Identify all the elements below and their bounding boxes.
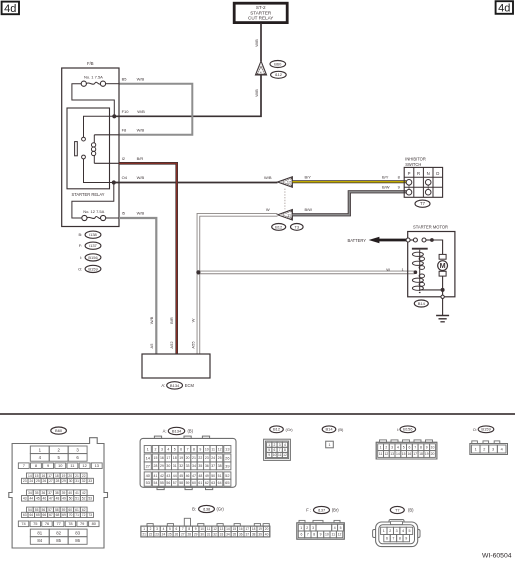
document number WI-60504 [482,552,512,559]
svg-text:21: 21 [192,456,196,460]
svg-text:33: 33 [88,479,92,483]
svg-text:10: 10 [200,527,204,531]
svg-text:4: 4 [284,443,286,447]
svg-text:64: 64 [218,481,222,485]
svg-text:T7: T7 [395,507,400,512]
svg-text:17: 17 [166,456,170,460]
inhibitor switch contacts N column [425,180,431,196]
relay coil [91,135,95,164]
svg-text:5: 5 [169,527,171,531]
battery feed (thick) with arrow [347,237,406,244]
node F10 junction [112,114,116,118]
svg-text:52: 52 [82,496,86,500]
wire coil top to pin F8 [94,134,119,136]
svg-text:8: 8 [284,448,286,452]
svg-text:60: 60 [192,481,196,485]
svg-text:46: 46 [43,496,47,500]
node O4 junction [112,180,116,184]
svg-text:3: 3 [279,443,281,447]
svg-text:F10: F10 [122,109,130,114]
svg-text:13: 13 [220,527,224,531]
svg-text:7: 7 [414,445,416,449]
svg-text:11: 11 [379,452,383,456]
svg-text:11: 11 [331,533,335,537]
svg-text:31: 31 [75,479,79,483]
svg-text:i112: i112 [275,72,283,77]
svg-text:47: 47 [192,474,196,478]
connector triangle pin 11 (B12 to T3) [278,210,293,221]
svg-text:6: 6 [180,447,182,451]
svg-text:T7: T7 [420,201,426,206]
connector face B156 shell and pins [376,440,437,459]
svg-text:W: W [386,267,390,272]
svg-text:5: 5 [268,448,270,452]
wire fuse No.1 left side down to F10 node [72,84,114,117]
svg-text:16: 16 [160,456,164,460]
svg-text:M: M [440,261,446,270]
svg-text:24: 24 [162,532,166,536]
svg-text:23: 23 [205,456,209,460]
svg-text:3: 3 [391,445,393,449]
svg-text:R: R [417,171,420,176]
svg-text:38: 38 [252,532,256,536]
svg-text:13: 13 [225,447,229,452]
svg-text:29: 29 [194,532,198,536]
solenoid coil [412,250,424,293]
svg-text:44: 44 [173,474,177,478]
connector label i112 [271,71,287,78]
svg-text:(Gr): (Gr) [217,507,225,512]
pin O4 label [122,175,145,180]
svg-text:5: 5 [340,526,342,530]
svg-text:B/R: B/R [137,156,144,161]
connector face A: B134 label [163,427,194,434]
svg-text:1: 1 [380,445,382,449]
svg-text:1: 1 [147,447,149,452]
svg-text:12: 12 [283,453,287,457]
svg-text:26: 26 [43,479,47,483]
connector face O: B159 label [473,426,494,433]
connector triangle (pin 4) B60 to i112 [255,61,266,75]
svg-text:37: 37 [48,491,52,495]
pin I5 label [122,211,145,216]
relay contact (lower) [82,155,86,159]
svg-text:19: 19 [62,474,66,478]
svg-text:43: 43 [166,474,170,478]
wire B/Y from pin 12 to inhibitor switch pin 8 [292,174,406,182]
svg-text:B5: B5 [122,76,128,81]
wire W from connector T3/B12 pin 11 to ECM A55 and starter motor pin 1 [198,215,414,354]
svg-text:I:: I: [80,255,82,260]
svg-text:W/B: W/B [137,175,145,180]
connector face B60 label [51,427,67,434]
svg-text:4: 4 [501,447,503,451]
terminal at starter case [441,290,444,299]
svg-text:4d: 4d [498,3,510,15]
svg-text:22: 22 [149,532,153,536]
svg-text:9: 9 [47,463,49,468]
svg-text:33: 33 [220,532,224,536]
svg-text:B12: B12 [275,224,283,229]
svg-text:7: 7 [187,447,189,451]
svg-text:2: 2 [306,526,308,530]
connector face B14 label [322,426,344,433]
svg-text:11: 11 [278,453,282,457]
svg-text:4d: 4d [4,3,16,15]
svg-text:45: 45 [179,474,183,478]
svg-text:D: D [436,171,439,176]
svg-text:63: 63 [23,513,27,517]
svg-text:36: 36 [205,464,209,468]
svg-text:25: 25 [168,532,172,536]
svg-text:60: 60 [68,508,72,512]
svg-text:No. 12 7.5A: No. 12 7.5A [83,209,104,214]
svg-text:(Br): (Br) [332,508,339,513]
svg-text:35: 35 [198,464,202,468]
switch: INHIBITOR SWITCH [404,157,442,198]
svg-text:B134: B134 [170,383,180,388]
connector label T7 under inhibitor switch [415,200,430,207]
svg-text:65: 65 [225,480,229,485]
svg-text:B/Y: B/Y [305,174,312,179]
svg-text:76: 76 [45,521,49,526]
svg-text:12: 12 [213,527,217,531]
svg-text:W/B: W/B [137,128,145,133]
svg-text:27: 27 [146,463,150,468]
svg-text:18: 18 [55,474,59,478]
svg-text:3: 3 [156,527,158,531]
svg-text:31: 31 [207,532,211,536]
svg-text:15: 15 [402,452,406,456]
svg-text:39: 39 [225,463,229,468]
ground symbol [436,316,449,322]
svg-text:19: 19 [179,456,183,460]
svg-text:79: 79 [80,521,84,526]
svg-text:53: 53 [146,480,150,485]
svg-text:30: 30 [166,464,170,468]
svg-text:39: 39 [62,491,66,495]
svg-text:2: 2 [389,529,391,533]
svg-text:16: 16 [239,527,243,531]
F/B connector id F: i137 [79,242,101,249]
svg-text:(B): (B) [338,427,344,432]
svg-text:58: 58 [55,508,59,512]
svg-text:14: 14 [396,452,400,456]
svg-text:W/B: W/B [254,39,259,47]
wire W/B from i112 down then left to F/B pin F10 [114,75,261,116]
svg-text:82: 82 [56,530,61,535]
solenoid plunger bar [412,248,428,250]
svg-text:1: 1 [383,529,385,533]
svg-text:B/W: B/W [305,207,313,212]
svg-text:B:: B: [79,232,83,237]
svg-text:51: 51 [75,496,79,500]
node W wire junction [196,270,200,274]
connector label T3 [291,224,304,231]
connector face B60 shell [9,438,108,548]
svg-text:F8: F8 [122,128,127,133]
svg-text:15: 15 [154,456,158,460]
F/B connector id B: i138 [79,231,101,238]
svg-text:12: 12 [218,447,222,451]
svg-text:24: 24 [29,479,33,483]
connector face I: B156 label [397,426,416,433]
svg-text:(B): (B) [408,508,414,513]
svg-text:38: 38 [55,491,59,495]
svg-text:38: 38 [218,464,222,468]
svg-text:(B): (B) [188,429,194,434]
svg-text:18: 18 [252,527,256,531]
svg-text:25: 25 [36,479,40,483]
wire W/B from ST-2 cut relay to connector B60/i112 [254,23,261,61]
svg-text:1: 1 [475,447,477,451]
inhibitor switch contacts P column [406,180,412,196]
svg-text:i138: i138 [203,506,211,511]
svg-text:68: 68 [56,513,60,517]
svg-text:10: 10 [431,445,435,449]
svg-text:1: 1 [143,527,145,531]
svg-text:3: 3 [492,447,494,451]
svg-text:23: 23 [155,532,159,536]
svg-text:11: 11 [70,463,74,468]
svg-text:53: 53 [88,496,92,500]
svg-text:21: 21 [75,474,79,478]
svg-text:28: 28 [187,532,191,536]
svg-text:13: 13 [95,463,99,468]
node motor/solenoid ground junction [441,288,445,292]
pin F10 label [122,109,146,114]
svg-text:A5: A5 [149,343,154,349]
svg-text:23: 23 [23,479,27,483]
svg-text:71: 71 [75,513,79,517]
svg-text:W/B: W/B [254,89,259,97]
svg-text:2: 2 [155,447,157,451]
node W wire to solenoid [414,270,418,274]
svg-text:BATTERY: BATTERY [347,238,366,243]
svg-text:75: 75 [33,521,37,526]
svg-text:86: 86 [75,538,80,543]
svg-text:48: 48 [198,474,202,478]
svg-text:57: 57 [173,481,177,485]
svg-text:11: 11 [211,447,215,451]
svg-text:7: 7 [182,527,184,531]
svg-text:F:: F: [79,243,83,248]
pin F8 label [122,128,145,133]
svg-text:7: 7 [279,448,281,452]
svg-text:8: 8 [188,527,190,531]
svg-text:B60: B60 [274,61,282,66]
svg-text:i137: i137 [318,507,326,512]
separator line [0,413,515,415]
connector face B14 pin [326,441,334,448]
svg-text:O:: O: [473,427,477,432]
svg-text:11: 11 [207,527,211,531]
svg-text:1: 1 [268,443,270,447]
svg-text:35: 35 [35,491,39,495]
svg-text:12: 12 [338,533,342,537]
svg-text:55: 55 [160,481,164,485]
svg-text:10: 10 [205,447,209,451]
svg-text:W/B: W/B [137,211,145,216]
svg-text:29: 29 [62,479,66,483]
connector label B12 [272,224,286,231]
svg-text:41: 41 [154,474,158,478]
svg-text:9: 9 [199,447,201,451]
svg-text:32: 32 [82,479,86,483]
svg-text:24: 24 [211,456,215,460]
svg-text:4: 4 [402,529,404,533]
svg-text:7: 7 [307,533,309,537]
wire F10 node to relay contact [84,116,115,137]
svg-text:2: 2 [483,447,485,451]
pin I2 label [122,156,144,161]
svg-text:2: 2 [150,527,152,531]
svg-text:i138: i138 [89,232,97,237]
svg-text:5: 5 [174,447,176,451]
wire fuse No.1 to pin B5 [106,83,119,85]
svg-text:8: 8 [193,447,195,451]
grid reference 4d top-right [496,1,513,14]
svg-text:39: 39 [258,532,262,536]
svg-text:A:: A: [163,429,167,434]
svg-text:43: 43 [23,496,27,500]
svg-text:5: 5 [408,529,410,533]
svg-text:N: N [427,171,430,176]
svg-text:10: 10 [273,453,277,457]
connector face B134 pins [144,446,231,487]
svg-text:B/R: B/R [169,317,174,324]
F/B connector id I: B156 [80,254,101,261]
svg-text:64: 64 [29,513,33,517]
label W and pin 1 at starter motor [386,267,404,272]
svg-text:3: 3 [161,447,163,451]
wire relay lower contact to O4 node [84,159,114,183]
svg-text:17: 17 [413,452,417,456]
svg-text:37: 37 [211,464,215,468]
relay contact (upper) [82,137,86,141]
svg-text:34: 34 [226,532,230,536]
svg-text:34: 34 [192,464,196,468]
svg-text:STARTER MOTOR: STARTER MOTOR [413,225,448,230]
relay armature bar [75,142,78,156]
svg-text:57: 57 [48,508,52,512]
grid reference 4d top-left [2,2,19,15]
svg-text:F/B: F/B [87,61,94,66]
wire W/B loop from F/B pin B5 right, down, back to pin F8 [119,84,192,135]
wire battery node to motor [432,240,443,254]
svg-text:8: 8 [420,445,422,449]
svg-text:72: 72 [82,513,86,517]
connector face B134 shell [140,436,236,489]
svg-text:36: 36 [41,491,45,495]
svg-text:12: 12 [384,452,388,456]
svg-text:22: 22 [198,456,202,460]
svg-text:20: 20 [68,474,72,478]
svg-text:STARTER RELAY: STARTER RELAY [72,192,105,197]
svg-text:29: 29 [160,464,164,468]
svg-text:4: 4 [397,445,399,449]
svg-text:27: 27 [181,532,185,536]
svg-text:W/B: W/B [137,109,145,114]
svg-text:9: 9 [268,453,270,457]
svg-text:40: 40 [265,532,269,536]
svg-text:50: 50 [211,474,215,478]
svg-text:59: 59 [186,481,190,485]
svg-text:O4: O4 [122,175,128,180]
svg-text:49: 49 [62,496,66,500]
svg-text:2: 2 [385,445,387,449]
svg-text:B/W: B/W [382,185,390,190]
wire fuse No.12 to pin I5 [106,217,119,219]
connector label B60 [270,61,286,68]
svg-text:6: 6 [274,448,276,452]
svg-text:6: 6 [301,533,303,537]
svg-text:42: 42 [82,491,86,495]
svg-text:25: 25 [218,456,222,460]
connector face i138 shell and pins [141,518,270,537]
svg-text:SWITCH: SWITCH [405,162,421,167]
svg-text:19: 19 [258,527,262,531]
svg-text:50: 50 [69,496,73,500]
wire B/R from F/B pin I2 to ECM A52 [119,163,177,354]
svg-text:73: 73 [88,513,92,517]
connector triangle pin 12 (B12 to T3) [278,177,293,188]
svg-text:35: 35 [233,532,237,536]
svg-text:32: 32 [179,464,183,468]
svg-text:28: 28 [154,464,158,468]
svg-text:41: 41 [75,491,79,495]
starter relay box [67,108,110,197]
fuse No. 12 7.5A [82,209,106,221]
svg-text:51: 51 [218,474,222,478]
svg-text:56: 56 [166,481,170,485]
svg-text:3: 3 [396,529,398,533]
svg-text:W: W [190,318,195,322]
svg-text:28: 28 [56,479,60,483]
svg-text:18: 18 [419,452,423,456]
svg-text:9: 9 [320,533,322,537]
F/B connector id O: B159 [78,265,101,272]
wire coil bottom to pin I2 [94,162,119,164]
svg-text:46: 46 [186,474,190,478]
pin B5 label [122,76,145,81]
svg-text:83: 83 [75,530,80,535]
svg-text:1: 1 [329,443,331,447]
svg-text:30: 30 [200,532,204,536]
svg-text:12: 12 [287,181,291,185]
svg-text:67: 67 [49,513,53,517]
svg-text:B159: B159 [481,427,491,432]
svg-text:54: 54 [154,481,158,485]
svg-text:B60: B60 [55,428,63,433]
svg-text:7: 7 [23,463,25,468]
svg-text:3: 3 [312,526,314,530]
svg-text:19: 19 [425,452,429,456]
svg-text:30: 30 [69,479,73,483]
connector face i137 shell and pins [297,520,345,539]
svg-text:WI-60504: WI-60504 [482,552,512,559]
svg-text:33: 33 [186,464,190,468]
svg-text:65: 65 [36,513,40,517]
svg-text:CUT RELAY: CUT RELAY [248,16,273,21]
svg-text:T3: T3 [294,224,299,229]
svg-text:49: 49 [205,474,209,478]
svg-text:i137: i137 [89,243,97,248]
svg-text:55: 55 [35,508,39,512]
svg-text:78: 78 [68,521,72,526]
svg-text:32: 32 [213,532,217,536]
wire solenoid bottom to ground node [420,289,443,291]
